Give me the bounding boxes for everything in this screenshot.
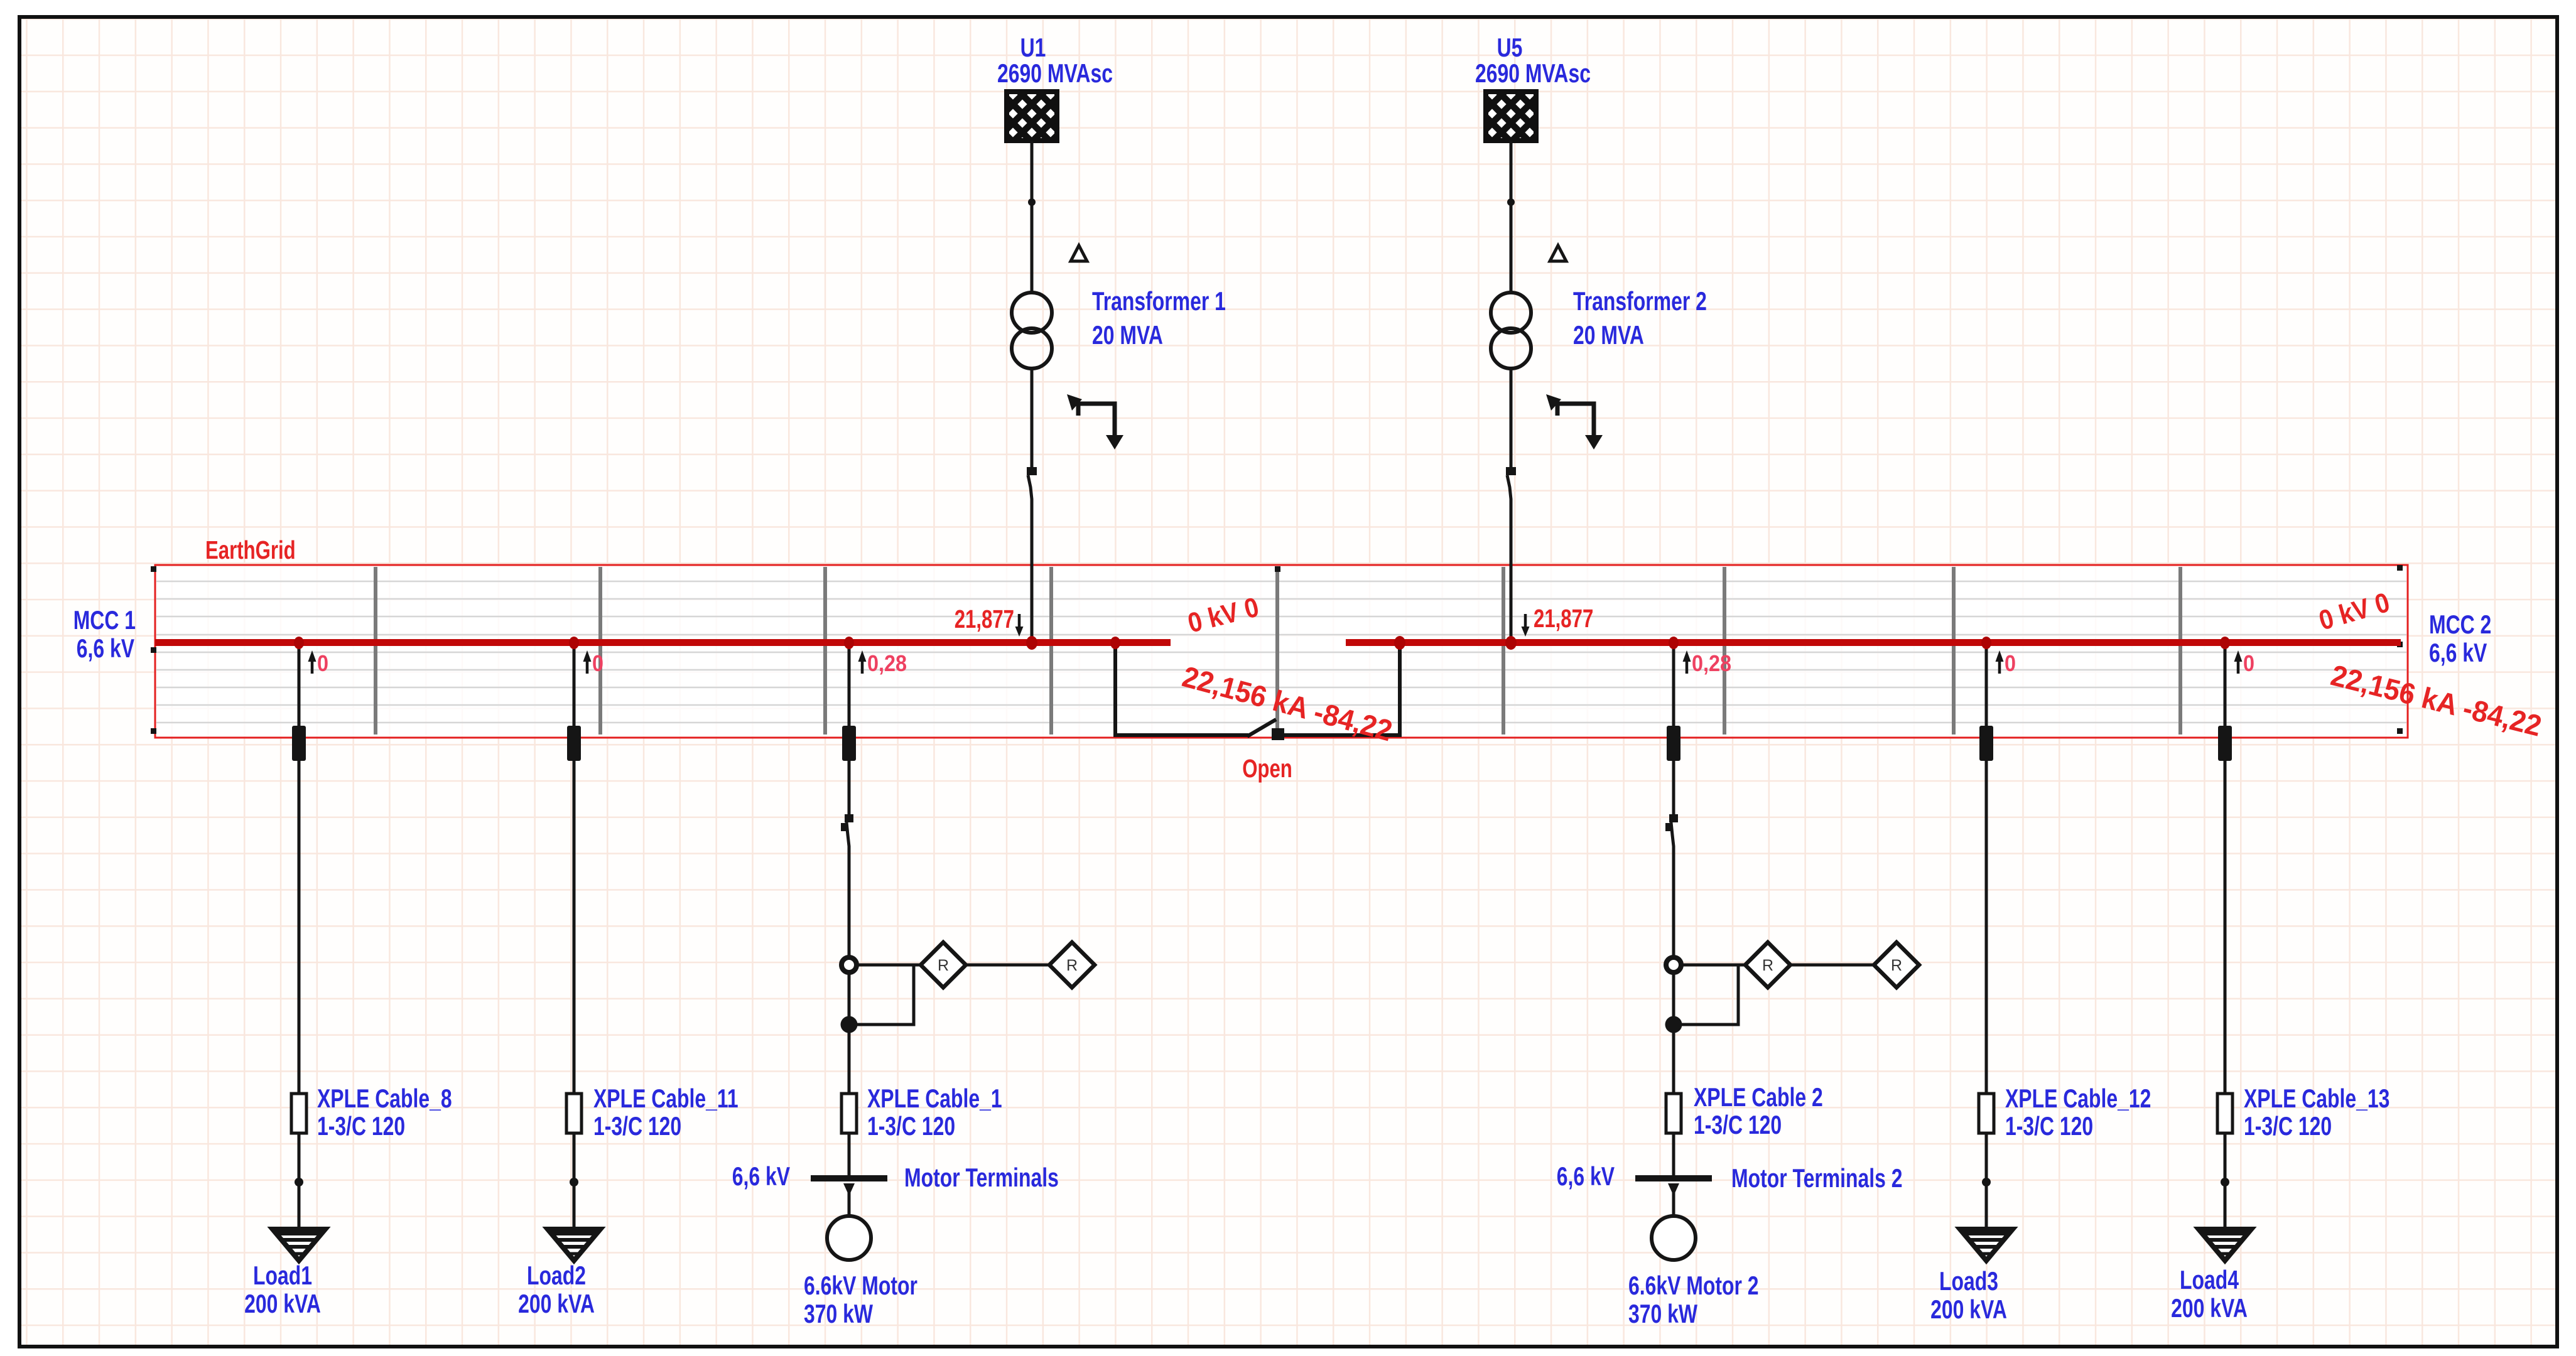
flow arrow at Load1 feeder — [308, 650, 317, 674]
flow arrow at Transformer 1 into MCC 1 — [1015, 614, 1024, 637]
svg-text:21,877: 21,877 — [1534, 604, 1593, 633]
flow arrow at Load3 feeder — [1996, 650, 2004, 674]
svg-text:1-3/C 120: 1-3/C 120 — [2244, 1111, 2332, 1141]
junction node: tie on MCC 2 — [1394, 636, 1405, 650]
svg-text:Load4: Load4 — [2180, 1265, 2239, 1294]
busbar MCC 1 (6,6 kV) — [155, 639, 1171, 646]
junction node: motor 2 feeder on MCC 2 — [1669, 637, 1679, 649]
flow arrow at motor feeder — [858, 650, 867, 674]
flow arrow at Transformer 2 into MCC 2 — [1522, 614, 1530, 637]
svg-text:20 MVA: 20 MVA — [1092, 320, 1163, 350]
junction node: Transformer 2 on MCC 2 — [1505, 636, 1517, 650]
svg-text:EarthGrid: EarthGrid — [205, 535, 296, 564]
svg-text:0: 0 — [2005, 651, 2016, 676]
tie switch blade (Open) — [1247, 719, 1276, 736]
junction node: Load4 feeder on MCC 2 — [2220, 637, 2230, 649]
feeder column 6.6kV Motor: breaker, contactor, CT ring, relay R diamonds, cable XPLE Cable_1, Motor Terminals bus, motor M1 — [811, 643, 1095, 1260]
junction node: Transformer 1 on MCC 1 — [1026, 636, 1037, 650]
EarthGrid boundary — [155, 565, 2408, 738]
svg-text:1-3/C 120: 1-3/C 120 — [867, 1111, 955, 1141]
svg-text:1-3/C 120: 1-3/C 120 — [317, 1111, 405, 1141]
feeder column Load3: breaker, cable XPLE Cable_12, node, load ground symbol — [1960, 643, 2013, 1261]
EarthGrid interior whitening — [156, 566, 2407, 737]
junction node: Load2 feeder on MCC 1 — [569, 637, 579, 649]
svg-text:1-3/C 120: 1-3/C 120 — [593, 1111, 681, 1141]
svg-text:6,6 kV: 6,6 kV — [77, 633, 134, 663]
EarthGrid selection handles — [151, 565, 2403, 734]
busbar MCC 2 (6,6 kV) — [1346, 639, 2401, 646]
svg-text:XPLE Cable_11: XPLE Cable_11 — [593, 1084, 739, 1113]
svg-text:200 kVA: 200 kVA — [2171, 1293, 2248, 1323]
svg-text:200 kVA: 200 kVA — [1930, 1294, 2007, 1324]
svg-text:200 kVA: 200 kVA — [244, 1289, 321, 1318]
svg-text:0,28: 0,28 — [1692, 651, 1731, 676]
svg-text:Transformer 2: Transformer 2 — [1573, 286, 1707, 316]
junction node: Load1 feeder on MCC 1 — [294, 637, 304, 649]
wire: tie from MCC 1 down and across — [1115, 643, 1248, 735]
svg-text:21,877: 21,877 — [955, 605, 1014, 633]
svg-text:MCC 1: MCC 1 — [73, 605, 136, 635]
svg-text:Load2: Load2 — [527, 1261, 586, 1290]
svg-text:6.6kV Motor: 6.6kV Motor — [804, 1271, 917, 1300]
tie switch hinge node — [1272, 728, 1284, 740]
svg-text:1-3/C 120: 1-3/C 120 — [1694, 1110, 1782, 1139]
svg-text:6,6 kV: 6,6 kV — [732, 1161, 790, 1191]
feeder column 6.6kV Motor 2: breaker, contactor, CT ring, relay R diamonds, cable XPLE Cable 2, Motor Terminals 2 bus, motor M2 — [1635, 643, 1919, 1260]
svg-text:0,28: 0,28 — [867, 651, 907, 676]
svg-text:0: 0 — [317, 651, 328, 676]
svg-text:0: 0 — [2243, 651, 2254, 676]
EarthGrid conductor columns (gray vertical bars) — [376, 567, 2180, 734]
source column U1: utility grid symbol, Transformer 1 (delta, LTC arrow), switch, wire to MCC 1 — [931, 92, 1132, 643]
feeder column Load2: breaker, cable XPLE Cable_11, node, load ground symbol — [548, 643, 600, 1261]
junction node: tie on MCC 1 — [1110, 637, 1120, 649]
svg-text:1-3/C 120: 1-3/C 120 — [2005, 1111, 2093, 1141]
flow arrow at Load4 feeder — [2234, 650, 2243, 674]
svg-text:XPLE Cable_13: XPLE Cable_13 — [2244, 1084, 2389, 1113]
flow arrow at Load2 feeder — [583, 650, 592, 674]
svg-text:Transformer 1: Transformer 1 — [1092, 286, 1226, 316]
svg-text:370 kW: 370 kW — [804, 1299, 874, 1328]
svg-text:Motor Terminals 2: Motor Terminals 2 — [1731, 1163, 1903, 1193]
svg-text:6,6 kV: 6,6 kV — [2429, 638, 2487, 667]
svg-text:Motor Terminals: Motor Terminals — [904, 1163, 1059, 1192]
feeder column Load4: breaker, cable XPLE Cable_13, node, load ground symbol — [2199, 643, 2251, 1261]
svg-text:200 kVA: 200 kVA — [518, 1289, 595, 1318]
svg-text:2690 MVAsc: 2690 MVAsc — [997, 58, 1113, 88]
svg-text:XPLE Cable 2: XPLE Cable 2 — [1694, 1082, 1823, 1112]
source column U5: utility grid symbol, Transformer 2 (delta, LTC arrow), switch, wire to MCC 2 — [1410, 92, 1611, 643]
svg-text:Load1: Load1 — [253, 1261, 312, 1290]
flow arrow at motor 2 feeder — [1683, 650, 1691, 674]
svg-text:MCC 2: MCC 2 — [2429, 610, 2491, 639]
svg-text:0: 0 — [592, 651, 603, 676]
svg-text:Load3: Load3 — [1939, 1266, 1998, 1296]
svg-text:370 kW: 370 kW — [1628, 1299, 1698, 1328]
wire: tie up to MCC 2 — [1281, 643, 1400, 735]
svg-text:XPLE Cable_8: XPLE Cable_8 — [317, 1084, 452, 1113]
svg-text:2690 MVAsc: 2690 MVAsc — [1475, 58, 1591, 88]
svg-text:XPLE Cable_1: XPLE Cable_1 — [867, 1084, 1002, 1113]
EarthGrid conductor rows (gray horizontal lines) — [156, 581, 2406, 723]
svg-text:XPLE Cable_12: XPLE Cable_12 — [2005, 1084, 2151, 1113]
junction node: Load3 feeder on MCC 2 — [1981, 637, 1991, 649]
svg-text:20 MVA: 20 MVA — [1573, 320, 1644, 350]
junction node: motor feeder on MCC 1 — [844, 637, 854, 649]
svg-text:6.6kV Motor 2: 6.6kV Motor 2 — [1628, 1271, 1759, 1300]
svg-text:6,6 kV: 6,6 kV — [1557, 1161, 1615, 1191]
svg-text:Open: Open — [1242, 754, 1292, 783]
feeder column Load1: breaker, cable XPLE Cable_8, node, load ground symbol — [273, 643, 325, 1261]
